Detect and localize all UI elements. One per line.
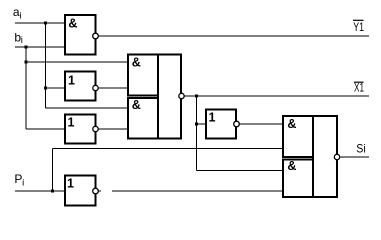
svg-text:&: & [132, 98, 141, 112]
svg-text:1: 1 [67, 177, 74, 191]
wire P branch to right gate upper AND input [53, 148, 284, 150]
inversion bubble gate U6 [179, 93, 184, 98]
junction node on P_i [51, 189, 54, 192]
gate NOT U2 box [65, 72, 96, 101]
gate U6 lower AND cell [128, 98, 158, 139]
gate NOT U3 box [65, 115, 96, 144]
svg-text:&: & [287, 117, 296, 131]
wire b branch to middle gate upper AND input [26, 61, 128, 63]
inversion bubble NOT U3 [93, 126, 98, 131]
svg-text:i: i [21, 35, 23, 46]
inversion bubble gate U7 [334, 154, 339, 159]
wire NOT4 output to right gate upper AND input [239, 123, 283, 125]
svg-text:&: & [287, 159, 296, 173]
junction node b branch [24, 60, 27, 63]
wire vertical branch of a_i [45, 23, 47, 108]
inversion bubble NAND U1 [93, 33, 99, 39]
wire vertical branch of b_i [25, 47, 27, 129]
svg-text:1: 1 [68, 116, 75, 130]
wire middle gate output to X1 [184, 95, 369, 97]
wire NOT2 output to middle gate [98, 128, 128, 130]
wire vertical branch of P_i [52, 149, 54, 192]
gate U7 upper AND cell [283, 116, 313, 157]
svg-text:1: 1 [209, 111, 216, 125]
wire input P_i [15, 190, 65, 192]
wire vertical X1 branch [196, 96, 198, 171]
wire X1 branch to right gate lower AND input [197, 170, 284, 172]
wire NOT3 output stub [98, 190, 101, 192]
inversion bubble NOT U5 [234, 121, 240, 127]
junction node on b_i [24, 45, 27, 48]
svg-text:i: i [22, 178, 24, 189]
gate NAND U1 box [65, 15, 96, 55]
inversion bubble NOT U4 [93, 188, 99, 194]
svg-text:&: & [68, 17, 77, 31]
gate U6 output OR column [158, 55, 181, 139]
junction node a branch [44, 86, 47, 89]
gate NOT U4 box [65, 176, 96, 206]
wire input b_i [15, 46, 65, 48]
overbar of Y1 [353, 19, 364, 21]
svg-text:&: & [132, 55, 141, 69]
wire NOT1 output to middle gate [98, 87, 128, 89]
wire right gate output to Si [340, 156, 369, 158]
wire a branch to NOT1 input [46, 87, 66, 89]
svg-text:1: 1 [68, 74, 75, 88]
svg-text:i: i [20, 10, 22, 21]
junction node X1 branch at NOT4 [195, 122, 198, 125]
wire input a_i [15, 22, 65, 24]
wire a branch to middle gate lower AND input [46, 107, 129, 109]
wire NAND U1 output to Y1 [98, 35, 369, 37]
gate NOT U5 box [206, 110, 236, 139]
gate U6 upper AND cell [128, 55, 158, 96]
wire X1 branch to NOT4 input [197, 123, 207, 125]
wire NOT3 output to right gate lower AND input [112, 190, 283, 192]
junction node X1 branch top [195, 94, 198, 97]
svg-text:Y1: Y1 [353, 20, 364, 34]
overbar of X1 [354, 81, 364, 83]
junction node on a_i [44, 21, 47, 24]
svg-text:Si: Si [356, 141, 366, 155]
gate U7 output column [313, 116, 337, 197]
wire b branch to NOT2 input [26, 128, 65, 130]
inversion bubble NOT U2 [93, 85, 98, 90]
gate U7 lower AND cell [283, 160, 313, 198]
